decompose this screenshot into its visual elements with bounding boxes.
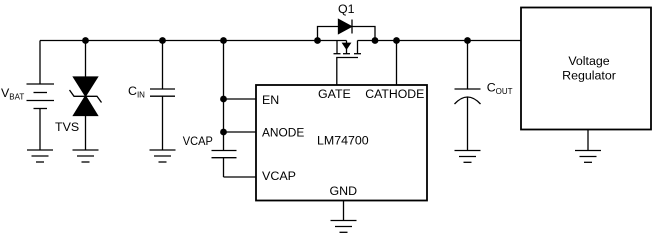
capacitor COUT bbox=[455, 41, 481, 151]
wire EN pin bbox=[224, 98, 257, 100]
ground VR bbox=[575, 151, 601, 163]
ground TVS bbox=[73, 150, 99, 162]
node dot Q1 right bbox=[372, 37, 379, 44]
svg-text:GATE: GATE bbox=[318, 87, 351, 101]
battery VBAT bbox=[27, 41, 55, 151]
svg-text:EN: EN bbox=[262, 93, 279, 107]
node dot COUT bbox=[464, 37, 471, 44]
svg-text:Q1: Q1 bbox=[338, 2, 355, 16]
svg-text:VCAP: VCAP bbox=[262, 169, 296, 183]
ground GND bbox=[331, 221, 357, 233]
svg-text:VCAP: VCAP bbox=[183, 134, 213, 148]
TVS diode bbox=[70, 41, 102, 151]
transistor Q1 body diode bbox=[318, 20, 376, 41]
wire CATHODE pin bbox=[396, 41, 398, 86]
svg-text:Voltage: Voltage bbox=[568, 54, 609, 68]
wire main rail left bbox=[40, 40, 347, 42]
node dot EN bbox=[220, 96, 227, 103]
svg-text:LM74700: LM74700 bbox=[317, 134, 369, 148]
wire GND pin bbox=[343, 201, 345, 221]
svg-text:TVS: TVS bbox=[55, 120, 79, 134]
block voltage regulator bbox=[521, 8, 651, 130]
node dot CATHODE bbox=[393, 37, 400, 44]
svg-text:Regulator: Regulator bbox=[562, 69, 616, 83]
ground battery bbox=[27, 150, 53, 162]
wire VR ground bbox=[587, 130, 589, 151]
capacitor CIN bbox=[150, 41, 175, 151]
svg-text:GND: GND bbox=[330, 184, 358, 198]
wire main rail right bbox=[358, 40, 522, 42]
wire VCAP pin bbox=[224, 176, 257, 178]
wire ANODE pin bbox=[224, 131, 257, 133]
IC U1 LM74700 box bbox=[256, 85, 427, 201]
transistor Q1 mosfet bbox=[334, 41, 362, 86]
ground COUT bbox=[455, 151, 481, 163]
svg-text:CATHODE: CATHODE bbox=[365, 87, 424, 101]
capacitor VCAP bbox=[212, 151, 237, 178]
node dot VCAP net bbox=[220, 37, 227, 44]
node dot CIN bbox=[159, 37, 166, 44]
node dot Q1 left bbox=[314, 37, 321, 44]
node dot ANODE bbox=[220, 129, 227, 136]
node dot TVS bbox=[82, 37, 89, 44]
wire VCAP net vertical bbox=[223, 41, 225, 151]
ground CIN bbox=[150, 150, 176, 162]
svg-text:ANODE: ANODE bbox=[262, 125, 304, 139]
